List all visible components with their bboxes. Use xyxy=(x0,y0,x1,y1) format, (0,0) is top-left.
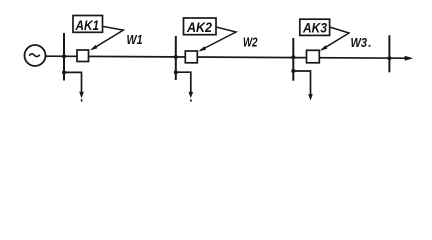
svg-text:AK1: AK1 xyxy=(75,17,100,33)
svg-text:W2: W2 xyxy=(243,35,258,49)
svg-text:AK2: AK2 xyxy=(186,19,212,35)
svg-text:W3: W3 xyxy=(351,36,368,50)
svg-text:W1: W1 xyxy=(127,33,143,47)
svg-text:AK3: AK3 xyxy=(302,20,327,36)
